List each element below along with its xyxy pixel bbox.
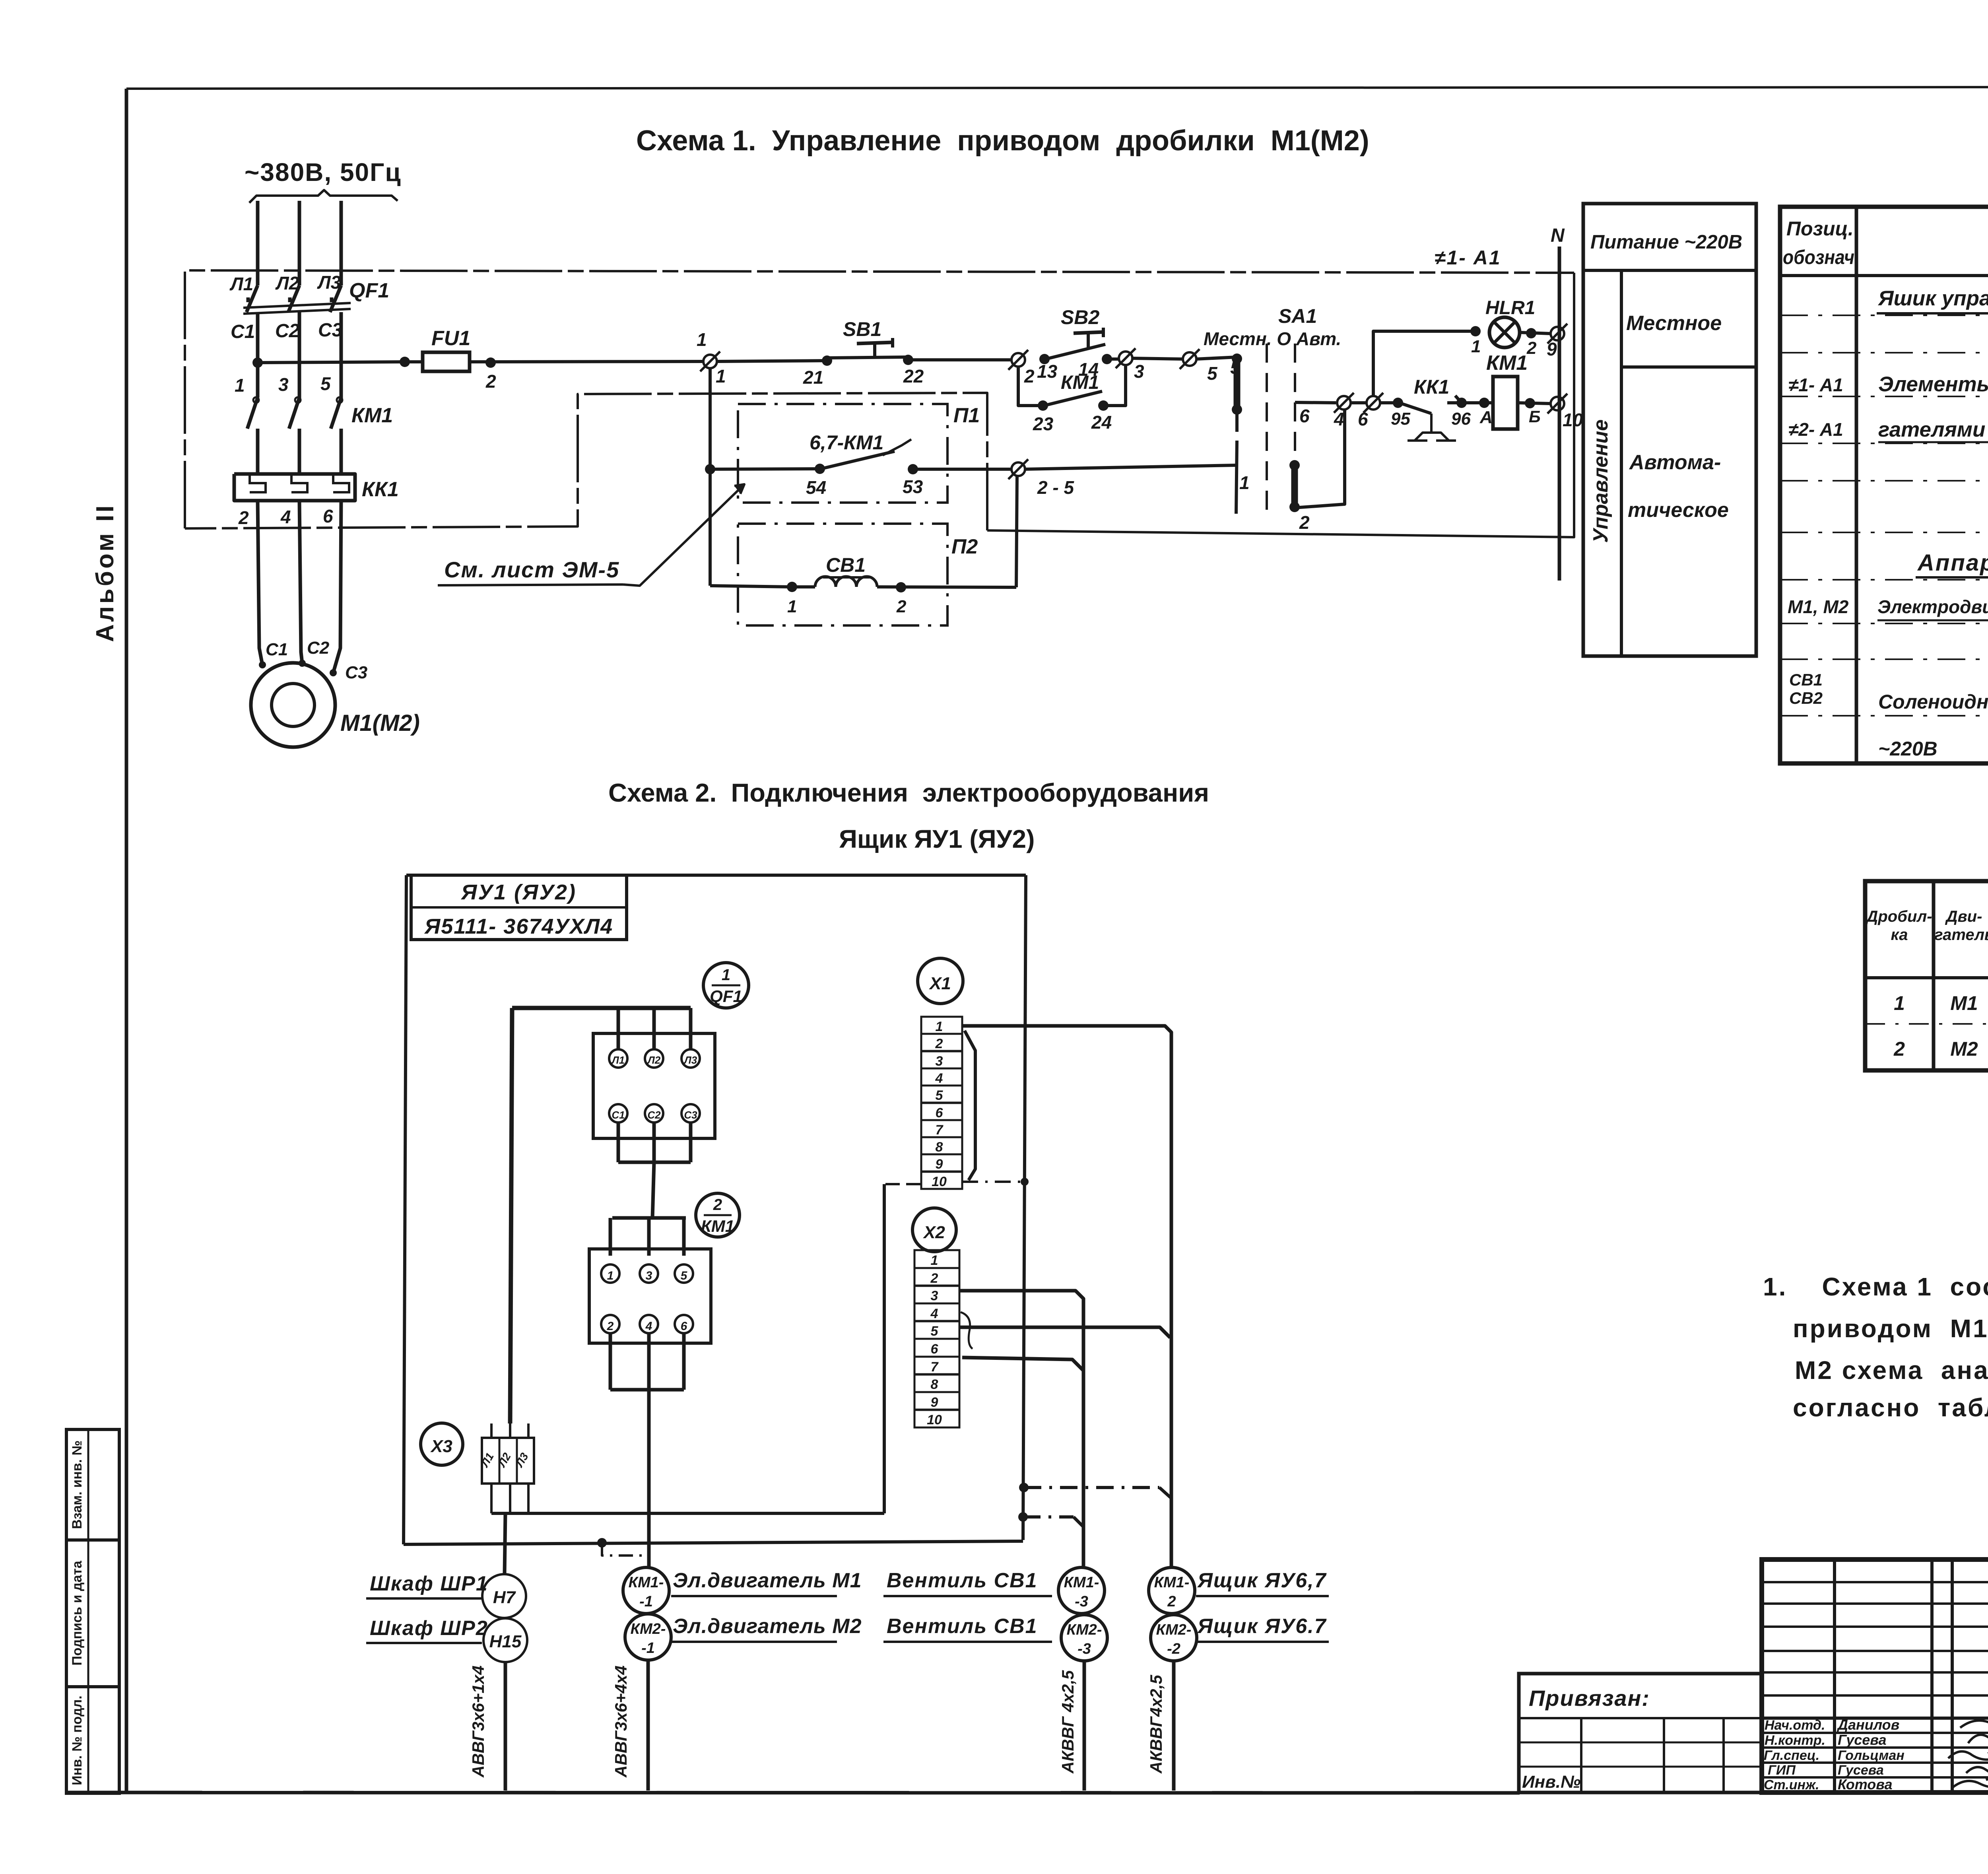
wire fuse to node 1 xyxy=(470,357,703,392)
svg-text:Л2: Л2 xyxy=(647,1054,661,1066)
breaker block QF1 xyxy=(593,1033,715,1138)
table 1 headers xyxy=(1865,889,1988,969)
label KK1 xyxy=(362,478,399,501)
svg-text:КМ1: КМ1 xyxy=(1061,372,1099,393)
wire node4 to node6 xyxy=(1350,401,1367,404)
svg-text:Схема 1. Управление приводом: Схема 1. Управление приводом дробилки М1… xyxy=(636,125,1369,157)
note text xyxy=(1763,1272,1988,1422)
svg-text:Ящик ЯУ6,7: Ящик ЯУ6,7 xyxy=(1197,1569,1327,1592)
label KM1 main xyxy=(351,404,393,427)
svg-text:3: 3 xyxy=(278,374,289,395)
svg-text:5: 5 xyxy=(681,1269,688,1282)
wire phase L3 drop xyxy=(340,201,343,285)
svg-text:9: 9 xyxy=(1547,339,1557,359)
svg-text:SA1: SA1 xyxy=(1278,305,1317,327)
connector P2 dashed box xyxy=(738,524,978,625)
table 1 row 1 xyxy=(1894,992,1988,1014)
wire segments KM1 to KK1 xyxy=(258,429,341,474)
svg-text:2: 2 xyxy=(930,1271,938,1286)
spec heading apparatus xyxy=(1916,550,1988,577)
svg-text:КМ1-: КМ1- xyxy=(629,1574,664,1591)
svg-text:QF1: QF1 xyxy=(710,987,742,1006)
svg-text:М2 схема аналогична с измен: М2 схема аналогична с изменениями xyxy=(1795,1356,1988,1385)
svg-text:тическое: тическое xyxy=(1628,499,1729,522)
svg-text:Питание ~220В: Питание ~220В xyxy=(1590,231,1742,253)
svg-text:КМ1: КМ1 xyxy=(1486,351,1528,375)
svg-text:СВ1: СВ1 xyxy=(1789,670,1823,689)
svg-text:Местное: Местное xyxy=(1626,312,1722,335)
svg-text:6: 6 xyxy=(1358,409,1368,429)
svg-text:Инв.№: Инв.№ xyxy=(1522,1772,1580,1792)
spec table frame xyxy=(1780,207,1988,763)
wire bus above QF1 xyxy=(512,1008,691,1049)
svg-text:-1: -1 xyxy=(641,1640,655,1656)
enclosure box A1 outline xyxy=(185,270,1574,537)
svg-text:10: 10 xyxy=(932,1174,947,1189)
svg-text:Подпись и дата: Подпись и дата xyxy=(70,1560,85,1666)
wire row 6.7-KM1 xyxy=(710,464,825,474)
svg-text:АВВГ3х6+4х4: АВВГ3х6+4х4 xyxy=(612,1666,630,1778)
svg-text:Эл.двигатель М2: Эл.двигатель М2 xyxy=(673,1615,862,1638)
svg-text:ГИП: ГИП xyxy=(1768,1763,1796,1778)
label KM1 aux xyxy=(1061,372,1099,393)
cable down from KM2-1 xyxy=(612,1660,648,1790)
labels 54 53 xyxy=(806,476,923,498)
node label L3 xyxy=(317,272,341,293)
svg-text:~380В, 50Гц: ~380В, 50Гц xyxy=(245,158,402,186)
dashdot X1-10 to box edge xyxy=(962,1178,1029,1186)
svg-text:4: 4 xyxy=(1334,409,1344,429)
svg-text:6: 6 xyxy=(1299,406,1310,426)
dashdot X1-10 left and down to X3 xyxy=(491,1184,920,1513)
svg-text:С2: С2 xyxy=(647,1109,661,1121)
svg-text:2: 2 xyxy=(713,1196,722,1214)
node label L1 xyxy=(229,274,253,294)
svg-text:5: 5 xyxy=(931,1324,939,1339)
labels 21 22 xyxy=(803,366,924,388)
svg-text:FU1: FU1 xyxy=(431,327,470,350)
svg-text:1: 1 xyxy=(1894,992,1905,1014)
svg-text:2: 2 xyxy=(607,1320,614,1333)
svg-text:Н15: Н15 xyxy=(489,1632,522,1651)
destination KM1-2 box YaU6.7 xyxy=(1149,1567,1329,1614)
cable down from KM2-3 xyxy=(1058,1661,1084,1790)
svg-text:Альбом II: Альбом II xyxy=(91,503,119,642)
svg-text:Ящик ЯУ6.7: Ящик ЯУ6.7 xyxy=(1197,1615,1327,1638)
cable down from KM2-2 xyxy=(1147,1661,1174,1790)
node 5 xyxy=(1180,349,1218,384)
node 6 xyxy=(1358,393,1383,429)
svg-text:-3: -3 xyxy=(1075,1593,1088,1610)
svg-text:3: 3 xyxy=(936,1054,943,1069)
svg-text:Местн. О Авт.: Местн. О Авт. xyxy=(1204,328,1341,349)
table 1 frame xyxy=(1865,881,1988,1070)
svg-text:4: 4 xyxy=(645,1320,652,1333)
svg-text:Шкаф ШР2: Шкаф ШР2 xyxy=(370,1617,488,1640)
terminal strip X2 xyxy=(912,1208,959,1427)
wire vertical node 2-5 down to CB1 xyxy=(1016,476,1017,587)
wire phase L2 drop xyxy=(298,201,301,285)
signal lamp HLR1 xyxy=(1485,297,1535,348)
svg-text:КМ1: КМ1 xyxy=(351,404,393,427)
labels 23 24 xyxy=(1033,412,1112,434)
svg-text:9: 9 xyxy=(936,1157,943,1172)
destination KM2-2 box YaU6.7 xyxy=(1151,1615,1329,1661)
svg-text:1: 1 xyxy=(697,329,707,350)
wire phase L1 drop xyxy=(256,201,260,285)
pushbutton SB1 xyxy=(829,338,907,358)
svg-text:5: 5 xyxy=(936,1088,944,1103)
svg-text:КК1: КК1 xyxy=(1414,376,1449,398)
svg-text:95: 95 xyxy=(1391,409,1410,429)
svg-text:С1: С1 xyxy=(266,640,288,659)
svg-text:1: 1 xyxy=(1239,472,1250,493)
label M1(M2) xyxy=(340,710,420,736)
svg-text:23: 23 xyxy=(1033,414,1054,434)
svg-text:2: 2 xyxy=(1167,1593,1176,1610)
svg-text:X3: X3 xyxy=(430,1437,452,1456)
label C3 xyxy=(318,320,343,341)
svg-text:С1: С1 xyxy=(612,1109,625,1121)
svg-text:Автома-: Автома- xyxy=(1629,451,1721,474)
svg-text:АКВВГ4х2,5: АКВВГ4х2,5 xyxy=(1147,1675,1165,1774)
svg-text:13: 13 xyxy=(1037,361,1058,382)
svg-text:Управление: Управление xyxy=(1589,419,1612,543)
svg-text:Аппаратура по месту: Аппаратура по месту xyxy=(1917,550,1988,576)
svg-text:КМ2-: КМ2- xyxy=(631,1621,666,1637)
spec table row lines xyxy=(1780,315,1988,716)
svg-text:10: 10 xyxy=(1563,410,1583,430)
node 10 xyxy=(1547,394,1583,430)
svg-text:1: 1 xyxy=(931,1253,938,1268)
svg-text:SB1: SB1 xyxy=(843,318,881,340)
svg-text:1. Схема 1 составлена для: 1. Схема 1 составлена для управления xyxy=(1763,1272,1988,1301)
svg-text:X2: X2 xyxy=(922,1223,945,1242)
svg-text:С3: С3 xyxy=(345,663,367,682)
neutral line N xyxy=(1551,225,1565,581)
svg-text:1: 1 xyxy=(607,1269,614,1282)
labels 2 4 6 xyxy=(238,506,333,528)
svg-text:6: 6 xyxy=(323,506,333,526)
wire lamp to node9 xyxy=(1520,328,1551,358)
wire coil to node10 xyxy=(1518,398,1551,426)
contactor KM1 main contacts xyxy=(247,397,342,429)
wire X2-6 joins valve column xyxy=(962,1357,1083,1371)
node 9 xyxy=(1547,324,1567,359)
wire X1-1 to right column xyxy=(962,1026,1171,1567)
svg-text:Данилов: Данилов xyxy=(1837,1717,1899,1733)
terminal block X3 xyxy=(421,1423,534,1513)
svg-text:5: 5 xyxy=(320,373,331,394)
selector switch SA1 xyxy=(1204,305,1345,533)
wires KK1 to motor xyxy=(258,501,341,676)
svg-text:2: 2 xyxy=(238,507,249,528)
svg-text:С2: С2 xyxy=(307,638,330,658)
svg-text:Я5111- 3674УХЛ4: Я5111- 3674УХЛ4 xyxy=(424,915,613,938)
circuit breaker QF1 xyxy=(243,285,351,314)
svg-text:QF1: QF1 xyxy=(349,279,389,302)
vertical label Albom II xyxy=(91,482,126,642)
svg-text:8: 8 xyxy=(936,1140,943,1155)
wire phase segments QF1 to KM1 xyxy=(258,312,341,401)
title block signature rows xyxy=(1764,1717,1905,1792)
left margin box Podpis i data xyxy=(66,1540,119,1687)
label FU1 xyxy=(431,327,470,350)
supply label 380V 50Hz xyxy=(245,158,402,186)
node 1 xyxy=(697,329,726,386)
svg-text:1: 1 xyxy=(716,366,726,386)
spec row 2 xyxy=(1788,373,1988,442)
spec row CB1 CB2 xyxy=(1789,670,1988,760)
svg-text:Гл.спец.: Гл.спец. xyxy=(1764,1748,1819,1763)
svg-text:Дви-: Дви- xyxy=(1945,908,1982,925)
svg-text:М1, М2: М1, М2 xyxy=(1788,596,1849,617)
svg-text:согласно таблице 1: согласно таблице 1 xyxy=(1793,1393,1988,1422)
svg-text:2: 2 xyxy=(1893,1038,1905,1060)
box label YaU1 xyxy=(411,875,627,940)
schema 1 title xyxy=(636,125,1369,157)
svg-text:Гусева: Гусева xyxy=(1838,1763,1884,1778)
svg-text:См. лист ЭМ-5: См. лист ЭМ-5 xyxy=(444,557,619,582)
node 2 xyxy=(1008,350,1035,386)
svg-text:1: 1 xyxy=(235,375,245,396)
pushbutton SB2 contact 13-14 xyxy=(1039,328,1119,364)
terminal strip X1 xyxy=(918,958,963,1189)
destination KM2-1 motor M2 xyxy=(625,1614,862,1660)
svg-text:М2: М2 xyxy=(1950,1038,1978,1060)
destination KM1-3 valve CB1 xyxy=(883,1567,1105,1614)
cable down from H15 xyxy=(469,1662,505,1790)
svg-text:Б: Б xyxy=(1529,407,1541,426)
svg-text:1: 1 xyxy=(1471,337,1481,356)
svg-text:7: 7 xyxy=(931,1359,939,1375)
svg-text:22: 22 xyxy=(903,366,924,386)
svg-text:-2: -2 xyxy=(1167,1641,1180,1657)
svg-text:КМ1-: КМ1- xyxy=(1154,1574,1190,1591)
svg-text:1: 1 xyxy=(936,1019,943,1034)
svg-text:2: 2 xyxy=(1024,366,1035,386)
spec row 1 xyxy=(1877,287,1988,313)
destination KM1-1 motor M1 xyxy=(623,1567,862,1614)
svg-text:ка: ка xyxy=(1891,926,1908,944)
wire row to coil KM1 xyxy=(1295,402,1336,403)
svg-text:6: 6 xyxy=(936,1105,944,1121)
svg-text:ЯУ1 (ЯУ2): ЯУ1 (ЯУ2) xyxy=(460,880,577,904)
svg-text:гателями М1, М2: гателями М1, М2 xyxy=(1878,418,1988,441)
svg-text:Л3: Л3 xyxy=(317,272,341,293)
spec row M1 M2 xyxy=(1788,595,1988,620)
svg-text:9: 9 xyxy=(931,1395,938,1410)
svg-text:обознач: обознач xyxy=(1783,246,1854,268)
contactor block KM1 xyxy=(589,1249,711,1343)
svg-text:приводом М1, для управления: приводом М1, для управления приводом xyxy=(1793,1314,1988,1343)
svg-text:2: 2 xyxy=(1526,338,1537,358)
svg-text:4: 4 xyxy=(935,1071,943,1086)
svg-text:HLR1: HLR1 xyxy=(1485,297,1535,318)
svg-text:КК1: КК1 xyxy=(362,478,399,501)
trunk X3 to H7 xyxy=(505,1513,505,1574)
svg-text:2: 2 xyxy=(485,371,496,392)
svg-text:Элементы управления электродви: Элементы управления электродви- xyxy=(1878,373,1988,396)
label C1 xyxy=(231,321,255,342)
svg-text:П2: П2 xyxy=(951,535,978,558)
svg-text:3: 3 xyxy=(1134,361,1144,382)
svg-text:Привязан:: Привязан: xyxy=(1529,1686,1650,1711)
svg-text:М1: М1 xyxy=(1950,992,1978,1014)
legend box Pitanie 220V xyxy=(1583,204,1756,656)
cable outline X1 xyxy=(965,1031,975,1180)
node 2-5 xyxy=(1008,459,1074,498)
svg-text:Нач.отд.: Нач.отд. xyxy=(1765,1718,1825,1733)
signatures squiggles xyxy=(1948,1714,1988,1799)
svg-text:6: 6 xyxy=(681,1320,687,1333)
destination H7 Shkaf ShR1 xyxy=(366,1572,526,1618)
title block revision grid xyxy=(1762,1559,1988,1792)
svg-text:4: 4 xyxy=(930,1306,938,1321)
supply brace xyxy=(249,190,398,203)
thermal contact KK1 xyxy=(1380,376,1471,441)
svg-text:АВВГ3х6+1х4: АВВГ3х6+1х4 xyxy=(469,1666,487,1778)
junction on KM1 row xyxy=(705,464,715,474)
svg-text:-3: -3 xyxy=(1077,1641,1091,1657)
svg-text:гатель: гатель xyxy=(1934,926,1988,944)
svg-text:С3: С3 xyxy=(318,320,343,341)
wire node5 to SA1 xyxy=(1196,357,1241,378)
svg-text:2: 2 xyxy=(1299,512,1310,533)
svg-text:Н7: Н7 xyxy=(493,1588,516,1607)
svg-text:Ст.инж.: Ст.инж. xyxy=(1764,1777,1819,1792)
svg-text:4: 4 xyxy=(280,507,291,527)
left margin box Vzam inv N xyxy=(66,1429,119,1540)
label SB2 xyxy=(1061,306,1099,328)
wire to coil xyxy=(1462,398,1493,427)
svg-text:М1(М2): М1(М2) xyxy=(340,710,420,736)
cable bracket X2 xyxy=(961,1312,973,1349)
title block frame xyxy=(1762,1559,1988,1792)
node 4 xyxy=(1334,393,1354,429)
svg-text:Л1: Л1 xyxy=(229,274,253,294)
svg-text:Гольцман: Гольцман xyxy=(1838,1748,1905,1763)
spec table headers xyxy=(1783,218,1988,268)
labels 1 3 5 xyxy=(235,373,331,396)
svg-text:КМ2-: КМ2- xyxy=(1067,1622,1102,1638)
svg-text:С2: С2 xyxy=(275,320,300,342)
thermal relay KK1 xyxy=(234,474,355,501)
left attach box Privyazan xyxy=(1519,1674,1762,1792)
label SB1 xyxy=(843,318,881,340)
svg-text:1: 1 xyxy=(722,966,730,984)
node 3 xyxy=(1116,348,1144,382)
solenoid valve coil CB1 xyxy=(710,554,1016,616)
svg-text:П1: П1 xyxy=(953,404,980,427)
circled ref 2 KM1 xyxy=(696,1193,740,1237)
contact 6.7-KM1 xyxy=(821,439,1012,474)
label C2 xyxy=(275,320,300,342)
svg-text:Вентиль СВ1: Вентиль СВ1 xyxy=(887,1615,1038,1638)
wire SB1 to node2 xyxy=(903,355,1012,365)
svg-text:SB2: SB2 xyxy=(1061,306,1099,328)
svg-text:СВ1: СВ1 xyxy=(826,554,866,576)
svg-text:Л3: Л3 xyxy=(683,1054,697,1066)
svg-text:54: 54 xyxy=(806,477,826,498)
svg-text:3: 3 xyxy=(931,1288,938,1303)
label QF1 xyxy=(349,279,389,302)
svg-text:2 - 5: 2 - 5 xyxy=(1037,477,1074,498)
wire node 2-5 to SA1 column xyxy=(1025,465,1250,493)
svg-text:КМ2-: КМ2- xyxy=(1156,1622,1192,1638)
svg-text:~220В: ~220В xyxy=(1878,738,1938,760)
svg-text:6: 6 xyxy=(931,1342,939,1357)
svg-text:Эл.двигатель М1: Эл.двигатель М1 xyxy=(673,1569,862,1592)
svg-text:Взам. инв. №: Взам. инв. № xyxy=(70,1440,85,1529)
svg-text:21: 21 xyxy=(803,367,823,388)
wires QF1 to KM1 block xyxy=(610,1122,691,1256)
svg-text:Позиц.: Позиц. xyxy=(1786,218,1854,240)
svg-text:2: 2 xyxy=(896,597,907,616)
svg-text:Электродвигатель 4А180S4У3; ~3: Электродвигатель 4А180S4У3; ~380В; 22кВт xyxy=(1877,596,1988,617)
svg-text:≠2- А1: ≠2- А1 xyxy=(1788,419,1843,440)
svg-text:10: 10 xyxy=(927,1412,942,1427)
svg-text:3: 3 xyxy=(646,1269,652,1282)
svg-text:≠1- А1: ≠1- А1 xyxy=(1788,375,1843,395)
label =1-A1 xyxy=(1435,247,1501,269)
svg-text:N: N xyxy=(1551,225,1565,246)
contactor KM1 aux selfhold contact 23-24 xyxy=(1018,365,1126,411)
svg-text:2: 2 xyxy=(935,1036,943,1051)
leader see sheet EM-5 xyxy=(438,484,744,586)
wire X2-3 to valve column xyxy=(959,1291,1083,1567)
svg-text:Гусева: Гусева xyxy=(1838,1732,1887,1748)
svg-text:КМ1: КМ1 xyxy=(701,1217,734,1235)
svg-text:Котова: Котова xyxy=(1838,1776,1893,1792)
labels 13 14 xyxy=(1037,359,1099,382)
wires KM1 block down xyxy=(610,1333,684,1567)
svg-text:Л1: Л1 xyxy=(611,1054,625,1066)
svg-text:5: 5 xyxy=(1207,363,1218,384)
schema 2 title xyxy=(608,778,1209,853)
trunk from bus to X3 xyxy=(510,1008,512,1423)
wire vertical from node1 down xyxy=(709,368,712,586)
node label L2 xyxy=(275,273,299,293)
svg-text:Схема 2. Подключения электро: Схема 2. Подключения электрооборудования xyxy=(608,778,1209,807)
svg-text:Инв. № подл.: Инв. № подл. xyxy=(70,1695,85,1785)
wire control feed to fuse xyxy=(258,357,410,367)
svg-text:Соленоидный Вентиль 15кч888рСВ: Соленоидный Вентиль 15кч888рСВМ, xyxy=(1878,691,1988,713)
connector P1 dashed box xyxy=(738,404,980,503)
svg-text:24: 24 xyxy=(1091,412,1112,433)
svg-text:≠1- А1: ≠1- А1 xyxy=(1435,247,1501,269)
svg-text:7: 7 xyxy=(936,1122,944,1138)
svg-text:1: 1 xyxy=(787,597,797,616)
destination H15 Shkaf ShR2 xyxy=(366,1617,527,1662)
left margin box Inv N podl xyxy=(66,1687,119,1793)
svg-text:Шкаф ШР1: Шкаф ШР1 xyxy=(370,1572,488,1595)
box YaU1 outline xyxy=(404,875,1026,1544)
junction L1 to control feed xyxy=(252,357,263,368)
svg-text:СВ2: СВ2 xyxy=(1789,689,1823,707)
svg-text:Вентиль СВ1: Вентиль СВ1 xyxy=(887,1569,1038,1592)
label 6.7-KM1 xyxy=(810,431,883,454)
svg-text:С3: С3 xyxy=(684,1109,697,1121)
svg-text:-1: -1 xyxy=(639,1593,653,1610)
table 1 row 2 xyxy=(1893,1038,1988,1060)
svg-text:А: А xyxy=(1479,408,1493,427)
svg-text:АКВВГ 4х2,5: АКВВГ 4х2,5 xyxy=(1058,1670,1077,1774)
svg-text:Н.контр.: Н.контр. xyxy=(1765,1733,1825,1748)
svg-text:С1: С1 xyxy=(231,321,255,342)
wire X2-5 joins right column xyxy=(959,1327,1170,1338)
lamp branch corner wire xyxy=(1373,326,1481,396)
